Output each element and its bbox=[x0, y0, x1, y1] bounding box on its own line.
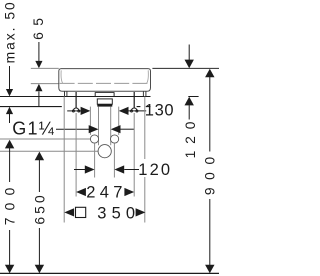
svg-text:120: 120 bbox=[183, 115, 198, 159]
dimension 350 left arrow bbox=[64, 208, 74, 216]
left extension line (foot) bbox=[63, 97, 65, 223]
svg-text:65: 65 bbox=[31, 12, 46, 40]
svg-text:700: 700 bbox=[3, 180, 18, 225]
svg-text:247: 247 bbox=[86, 183, 126, 201]
drain pipe outer light lines bbox=[89, 107, 91, 135]
dimension max.50 lower arrow bbox=[6, 107, 13, 123]
rim level line right bbox=[152, 67, 219, 69]
dimension 700 top arrow bbox=[5, 140, 14, 182]
left fixing hole bbox=[90, 135, 98, 143]
drain pipe inner light lines bbox=[98, 107, 100, 146]
drain locknut under slab bbox=[97, 99, 112, 107]
dimension 900 bottom arrow bbox=[205, 199, 214, 273]
right hanger bolt bbox=[130, 92, 138, 112]
dimension 65 upper arrow bbox=[35, 42, 42, 68]
dimension G1-1/4 right arrow bbox=[111, 125, 135, 133]
svg-text:350: 350 bbox=[97, 204, 140, 222]
top reference down arrow bbox=[185, 45, 194, 69]
svg-text:120: 120 bbox=[138, 161, 172, 179]
svg-text:900: 900 bbox=[203, 149, 218, 195]
center drop line right bbox=[113, 144, 115, 178]
washbasin inner bottom light line bbox=[60, 82, 150, 84]
console slab top line bbox=[0, 96, 151, 98]
right fixing hole bbox=[111, 135, 119, 143]
rim level light line left bbox=[31, 67, 59, 69]
center drop line left bbox=[94, 144, 96, 178]
dimension max.50 upper arrow bbox=[6, 66, 13, 96]
left hanger bolt bbox=[72, 92, 80, 112]
dimension 650 top arrow bbox=[35, 152, 44, 192]
fixing holes center line bbox=[0, 138, 90, 140]
washbasin body bbox=[59, 69, 151, 92]
dimension 120 vertical up arrow bbox=[185, 97, 194, 120]
floor line bbox=[0, 272, 219, 274]
washbasin inner left wall light bbox=[61, 70, 63, 83]
dimension 120 horizontal left arrow bbox=[74, 165, 95, 173]
svg-text:max. 50: max. 50 bbox=[2, 0, 17, 63]
dimension G1-1/4 left arrow bbox=[56, 125, 99, 133]
washbasin right foot bbox=[143, 91, 146, 96]
dimension 700 bottom arrow bbox=[5, 230, 14, 273]
dimension 120 vertical tick bbox=[188, 96, 198, 98]
drain tailpiece above slab bbox=[95, 92, 114, 96]
svg-text:650: 650 bbox=[32, 192, 47, 224]
washbasin left foot bbox=[65, 91, 67, 96]
dimension 130 left arrow bbox=[67, 107, 90, 115]
washbasin inner right wall light bbox=[146, 70, 148, 83]
right extension line (foot) upper part bbox=[144, 97, 146, 160]
square symbol bbox=[76, 207, 86, 217]
dimension 130 right arrow bbox=[119, 107, 147, 115]
svg-text:G1¼: G1¼ bbox=[12, 119, 55, 139]
dimension 650 bottom arrow bbox=[35, 228, 44, 273]
right extension line (bolt) bbox=[133, 113, 135, 197]
dimension 900 up arrow bbox=[205, 69, 214, 152]
dimension 120 horizontal right arrow bbox=[114, 165, 139, 173]
rim bottom light line left bbox=[31, 83, 59, 85]
dimension 65 lower arrow bbox=[35, 84, 42, 107]
console slab bottom line bbox=[0, 106, 151, 108]
left extension line (bolt) bbox=[75, 113, 77, 197]
dimension 350 right arrow bbox=[136, 208, 146, 216]
dimension 247 right arrow bbox=[124, 188, 134, 196]
siphon center line bbox=[0, 150, 98, 152]
svg-text:130: 130 bbox=[145, 102, 174, 120]
siphon circle bbox=[98, 145, 111, 158]
right extension line (foot) lower part bbox=[144, 177, 146, 223]
dimension 247 left arrow bbox=[76, 188, 86, 196]
